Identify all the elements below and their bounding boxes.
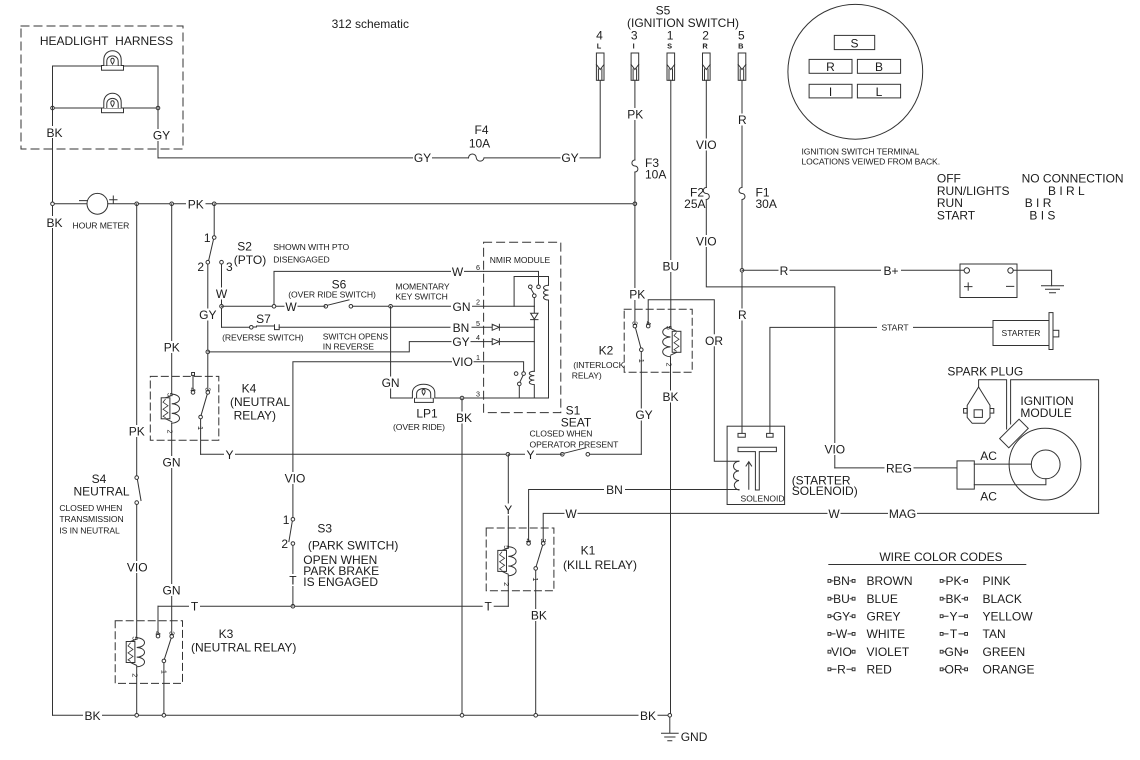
hour meter M1 — [73, 193, 130, 230]
svg-text:VIO: VIO — [696, 138, 717, 152]
label W on S2 pin3 drop — [215, 287, 228, 301]
svg-text:TRANSMISSION: TRANSMISSION — [59, 514, 123, 524]
switch S6 (over ride) — [324, 300, 353, 308]
switch S3 park — [289, 518, 295, 607]
svg-text:STARTER: STARTER — [1002, 328, 1041, 338]
node R to battery junction — [740, 269, 744, 273]
svg-text:1: 1 — [283, 513, 290, 527]
svg-text:IN REVERSE: IN REVERSE — [323, 342, 374, 352]
svg-text:2: 2 — [166, 430, 175, 434]
label VIO on S3 riser — [285, 472, 307, 486]
svg-text:GY: GY — [635, 408, 652, 422]
svg-text:K2: K2 — [599, 344, 614, 358]
svg-text:VIO: VIO — [452, 355, 473, 369]
svg-text:PK: PK — [188, 197, 204, 211]
label VIO at NMIR pin1 — [452, 355, 474, 369]
svg-text:BN: BN — [453, 321, 470, 335]
node PK-BK junction — [51, 202, 55, 206]
svg-text:4: 4 — [524, 539, 533, 543]
wire lamp1 row — [53, 65, 159, 67]
label PK bus — [186, 197, 206, 211]
svg-text:(IGNITION SWITCH): (IGNITION SWITCH) — [627, 16, 739, 30]
wire W row NMIR pin6 — [274, 271, 484, 306]
svg-text:BU: BU — [833, 592, 850, 606]
S5 pin 3 connector — [631, 29, 639, 81]
node Y to K1 coil — [506, 453, 510, 457]
wire GY row to NMIR pin4 — [208, 342, 484, 352]
wire Y row from K4 to seat switch — [201, 453, 642, 455]
wire K4 coil GN drop to K3 pin3 — [171, 423, 173, 634]
svg-text:BLACK: BLACK — [983, 592, 1022, 606]
node PK-K4coil junction — [170, 202, 174, 206]
label K1 (KILL RELAY) — [563, 544, 637, 573]
NMIR internal relay 1 contacts — [529, 285, 541, 298]
svg-text:VIO: VIO — [696, 235, 717, 249]
wire K1 pin1 BK drop — [535, 570, 537, 715]
label START — [877, 322, 913, 332]
svg-text:GY: GY — [452, 335, 469, 349]
svg-text:OPERATOR PRESENT: OPERATOR PRESENT — [530, 439, 620, 449]
label R lower — [737, 308, 748, 322]
svg-text:SOLENOID): SOLENOID) — [792, 484, 858, 498]
label PK on pin3 drop — [626, 108, 646, 122]
note closed when transmission is in neutral — [59, 503, 123, 535]
svg-text:S2: S2 — [237, 240, 252, 254]
svg-text:SPARK PLUG: SPARK PLUG — [947, 365, 1023, 379]
svg-text:2: 2 — [702, 29, 709, 43]
S5 pin 2 connector — [702, 29, 710, 81]
module connector block — [957, 461, 974, 489]
svg-text:IGNITION SWITCH TERMINAL: IGNITION SWITCH TERMINAL — [802, 147, 920, 157]
label PK on S4 feed — [127, 425, 147, 439]
wire S5 pin2 VIO drop — [706, 80, 835, 468]
label AC bottom — [980, 490, 997, 504]
svg-text:GND: GND — [681, 730, 708, 744]
svg-text:RED: RED — [867, 663, 893, 677]
S2 pin labels — [197, 231, 233, 274]
node BK-K1 — [534, 714, 538, 718]
code BU BLUE — [828, 592, 898, 606]
wire REG — [835, 467, 957, 469]
svg-text:Y: Y — [225, 448, 233, 462]
svg-text:2: 2 — [664, 363, 673, 367]
label GN at NMIR pin2 — [451, 300, 472, 314]
label W at NMIR pin6 — [451, 265, 464, 279]
relay K4 switch — [191, 391, 209, 419]
ground battery — [1042, 286, 1064, 293]
svg-text:10A: 10A — [645, 168, 666, 182]
wire Y drop to K1 coil — [507, 454, 509, 546]
code BK BLACK — [940, 592, 1022, 606]
svg-text:PK: PK — [164, 341, 180, 355]
label GY at NMIR pin4 — [452, 335, 471, 349]
code T TAN — [940, 627, 1005, 641]
S5 pin 4 connector — [596, 29, 604, 81]
svg-text:AC: AC — [980, 490, 997, 504]
K1 coil pin labels — [502, 545, 511, 586]
label S7 — [256, 312, 271, 326]
svg-text:BROWN: BROWN — [867, 574, 913, 588]
svg-text:F4: F4 — [474, 123, 488, 137]
node BK-NMIR — [460, 714, 464, 718]
svg-text:Y: Y — [949, 610, 957, 624]
node W-GN junction to LP1 riser — [389, 305, 393, 309]
label AC top — [980, 449, 997, 463]
relay K2 coil — [663, 327, 681, 715]
node BK-K3pin1 — [162, 714, 166, 718]
svg-text:LOCATIONS VEIWED FROM BACK.: LOCATIONS VEIWED FROM BACK. — [802, 157, 940, 167]
svg-text:PK: PK — [629, 288, 645, 302]
code OR ORANGE — [940, 663, 1034, 677]
label W left — [565, 507, 578, 521]
svg-text:NMIR MODULE: NMIR MODULE — [490, 255, 551, 265]
note momentary key switch — [395, 282, 450, 302]
relay K2 switch — [633, 324, 650, 351]
label BK harness — [46, 126, 63, 140]
K4 switch pin4 stub — [192, 373, 195, 391]
label LP1 — [393, 407, 445, 433]
svg-text:R: R — [738, 113, 747, 127]
wire GN riser to LP1 — [390, 306, 392, 398]
svg-text:10A: 10A — [469, 137, 490, 151]
svg-text:3: 3 — [226, 260, 233, 274]
K4 coil pin labels — [166, 393, 175, 434]
label GY on S2 pin2 drop — [198, 308, 217, 322]
NMIR internal right bus — [548, 300, 550, 398]
svg-text:(REVERSE SWITCH): (REVERSE SWITCH) — [222, 333, 304, 343]
NMIR module dashed box — [484, 242, 561, 412]
label GY on K2 riser — [635, 408, 654, 422]
svg-text:SOLENOID: SOLENOID — [741, 494, 785, 504]
svg-text:I: I — [829, 85, 832, 99]
svg-text:GREEN: GREEN — [983, 645, 1026, 659]
relay K3 coil — [126, 638, 144, 716]
wire BN row S7 to NMIR pin5 — [279, 326, 483, 328]
label VIO right riser — [824, 443, 845, 457]
svg-text:L: L — [597, 42, 602, 51]
svg-text:RELAY): RELAY) — [572, 370, 602, 380]
node lamp2 left — [51, 106, 55, 110]
caption terminal locations — [802, 147, 940, 167]
svg-text:GN: GN — [945, 645, 963, 659]
label S6 — [288, 278, 376, 300]
svg-text:LP1: LP1 — [416, 407, 438, 421]
svg-text:(PARK SWITCH): (PARK SWITCH) — [308, 539, 398, 553]
svg-text:WIRE COLOR CODES: WIRE COLOR CODES — [879, 550, 1002, 564]
wire AC bottom lead — [974, 479, 1046, 485]
lamp LP1 (over ride) — [391, 384, 484, 402]
K1 switch pin labels — [524, 539, 548, 582]
terminal I box — [809, 84, 852, 99]
svg-text:5: 5 — [166, 393, 175, 397]
svg-text:AC: AC — [980, 449, 997, 463]
svg-text:PK: PK — [129, 425, 145, 439]
label (STARTER SOLENOID) — [792, 474, 858, 499]
svg-text:T: T — [191, 600, 199, 614]
wire BN from K1 pin4 to solenoid coil bottom — [529, 490, 739, 542]
svg-text:(OVER RIDE SWITCH): (OVER RIDE SWITCH) — [288, 290, 376, 300]
svg-text:3: 3 — [631, 29, 638, 43]
svg-text:4: 4 — [154, 631, 163, 635]
code R RED — [828, 663, 892, 677]
label PK above K2 — [628, 288, 648, 302]
svg-text:3: 3 — [167, 631, 176, 635]
ignition module box — [1011, 380, 1099, 514]
svg-text:W: W — [216, 287, 228, 301]
svg-text:PINK: PINK — [983, 574, 1011, 588]
switch S2 (PTO) — [206, 236, 223, 264]
fuse F1 — [739, 186, 777, 212]
svg-text:BU: BU — [662, 260, 679, 274]
label W right — [828, 507, 841, 521]
svg-text:GN: GN — [453, 300, 471, 314]
svg-text:START: START — [881, 322, 908, 332]
module pickup slanted block — [1000, 419, 1029, 448]
svg-text:R: R — [780, 264, 789, 278]
svg-text:BK: BK — [456, 411, 472, 425]
fuse F3 — [632, 156, 666, 182]
svg-text:R: R — [738, 308, 747, 322]
node W pin6 junction — [272, 305, 276, 309]
NMIR internal pin3 row — [484, 397, 549, 399]
svg-text:S: S — [850, 37, 858, 51]
svg-text:4: 4 — [189, 388, 198, 392]
starter motor — [993, 313, 1059, 350]
relay K1 coil — [498, 547, 516, 607]
NMIR pin numbers — [476, 263, 480, 399]
K3 coil pin labels — [131, 636, 140, 677]
label T on S3 drop — [287, 574, 298, 588]
svg-text:L: L — [876, 85, 883, 99]
svg-text:SHOWN WITH PTO: SHOWN WITH PTO — [273, 242, 349, 252]
wire AC top lead — [974, 463, 1031, 465]
svg-text:W: W — [452, 265, 464, 279]
label GY harness — [152, 129, 170, 143]
svg-text:B I R L: B I R L — [1048, 184, 1085, 198]
svg-text:W: W — [836, 627, 848, 641]
node PK-S4 junction — [135, 202, 139, 206]
ignition switch position table — [937, 172, 1124, 223]
label BN at NMIR pin5 — [451, 321, 472, 335]
label S4 NEUTRAL — [73, 472, 129, 499]
svg-text:4: 4 — [644, 321, 653, 325]
battery BT1 — [960, 264, 1017, 298]
svg-text:B I S: B I S — [1029, 208, 1055, 222]
NMIR internal coil 1 — [544, 285, 549, 300]
svg-text:5: 5 — [664, 326, 673, 330]
svg-text:S: S — [667, 42, 672, 51]
wire GY to F4 to S5 pin4 — [158, 80, 600, 158]
svg-text:BK: BK — [46, 126, 62, 140]
svg-text:4: 4 — [596, 29, 603, 43]
flywheel inner circle — [1031, 450, 1060, 479]
svg-text:GY: GY — [561, 151, 578, 165]
svg-text:MODULE: MODULE — [1020, 406, 1071, 420]
svg-text:IS IN NEUTRAL: IS IN NEUTRAL — [59, 525, 120, 535]
svg-text:(KILL RELAY): (KILL RELAY) — [563, 558, 637, 572]
svg-text:BK: BK — [640, 709, 656, 723]
label BN — [604, 483, 625, 497]
NMIR internal diode D3 pin4 — [484, 339, 535, 345]
relay K1 dashed box — [486, 528, 554, 591]
svg-text:1: 1 — [667, 29, 674, 43]
svg-text:PK: PK — [627, 108, 643, 122]
svg-text:NEUTRAL: NEUTRAL — [73, 485, 129, 499]
wire K4 coil feed PK — [171, 204, 173, 394]
svg-text:CLOSED WHEN: CLOSED WHEN — [530, 428, 593, 438]
svg-text:WHITE: WHITE — [867, 627, 906, 641]
svg-text:3: 3 — [539, 539, 548, 543]
spark plug label — [947, 365, 1023, 379]
wire K4 pin1 to Y row — [200, 419, 202, 454]
svg-text:REG: REG — [886, 462, 912, 476]
svg-text:SWITCH OPENS: SWITCH OPENS — [323, 332, 389, 342]
relay K1 switch — [527, 542, 545, 571]
svg-text:BK: BK — [662, 390, 678, 404]
S3 pin labels — [281, 513, 289, 551]
note open when park brake is engaged — [303, 553, 379, 589]
NMIR internal relay 2 contacts — [514, 372, 525, 386]
note reverse switch — [222, 333, 304, 343]
svg-text:GN: GN — [382, 376, 400, 390]
wire spark plug to module top — [979, 380, 1007, 429]
label REG — [885, 462, 914, 476]
headlamp 2 — [102, 93, 124, 113]
label BK bus left — [83, 709, 102, 723]
svg-text:BK: BK — [84, 709, 100, 723]
svg-text:OR: OR — [705, 334, 723, 348]
label GY left — [413, 151, 432, 165]
NMIR internal diode D1 down — [531, 306, 538, 371]
svg-text:S7: S7 — [256, 312, 271, 326]
svg-text:25A: 25A — [684, 197, 705, 211]
label S3 (PARK SWITCH) — [308, 522, 398, 553]
svg-text:W: W — [828, 507, 840, 521]
svg-text:2: 2 — [476, 298, 480, 307]
switch S4 neutral — [135, 204, 141, 638]
svg-text:3: 3 — [203, 388, 212, 392]
svg-text:2: 2 — [502, 582, 511, 586]
svg-text:2: 2 — [131, 673, 140, 677]
svg-text:YELLOW: YELLOW — [983, 610, 1034, 624]
label VIO lower — [696, 235, 717, 249]
label GN on LP1 riser — [380, 376, 401, 390]
label GN upper on K4 drop — [161, 456, 182, 470]
svg-text:HEADLIGHT HARNESS: HEADLIGHT HARNESS — [40, 34, 173, 48]
svg-text:BN: BN — [606, 483, 623, 497]
label R on battery feed — [779, 264, 790, 278]
code VIO VIOLET — [828, 645, 910, 659]
relay K2 dashed box — [624, 309, 692, 372]
code GN GREEN — [940, 645, 1025, 659]
starter solenoid box — [727, 426, 785, 504]
relay K4 dashed box — [150, 376, 219, 440]
NMIR internal pin6 wire — [484, 271, 539, 284]
svg-text:5: 5 — [131, 636, 140, 640]
svg-text:I: I — [633, 42, 635, 51]
svg-text:Y: Y — [526, 448, 534, 462]
svg-text:HOUR METER: HOUR METER — [73, 221, 130, 231]
node BK-S4 — [135, 714, 139, 718]
svg-text:T: T — [950, 627, 958, 641]
relay K4 coil — [161, 394, 179, 423]
label K3 (NEUTRAL RELAY) — [191, 627, 296, 655]
svg-text:BK: BK — [945, 592, 961, 606]
NMIR internal wire contact2 to pin3 row — [518, 386, 520, 398]
wire BK drop from pin3 row — [461, 398, 463, 715]
NMIR internal pin1 wire — [484, 362, 524, 372]
K3 switch pin labels — [154, 631, 177, 674]
label Y on row — [224, 448, 235, 462]
label BK on K1 drop — [529, 609, 548, 623]
label R upper — [737, 113, 748, 127]
svg-text:(INTERLOCK: (INTERLOCK — [573, 360, 624, 370]
code BN BROWN — [828, 574, 913, 588]
node W junction S2 — [220, 305, 224, 309]
fuse F2 — [684, 186, 709, 212]
svg-text:BLUE: BLUE — [867, 592, 898, 606]
title 312 schematic — [332, 17, 409, 31]
node PK-S2 junction — [212, 202, 216, 206]
label PK on K4 coil feed — [162, 341, 182, 355]
svg-text:B: B — [875, 60, 883, 74]
svg-text:KEY SWITCH: KEY SWITCH — [395, 292, 447, 302]
svg-text:ORANGE: ORANGE — [983, 663, 1035, 677]
node T S3 junction — [291, 604, 295, 608]
terminal S box — [834, 35, 874, 50]
ground GND — [662, 717, 708, 744]
label Y near seat switch — [525, 448, 536, 462]
svg-text:2: 2 — [197, 260, 204, 274]
svg-text:GY: GY — [414, 151, 431, 165]
wire BK bottom bus — [53, 714, 670, 716]
svg-text:OR: OR — [945, 663, 963, 677]
wire T row — [158, 605, 508, 607]
svg-text:START: START — [937, 208, 976, 222]
label T left — [189, 600, 200, 614]
terminal L box — [857, 84, 900, 99]
label BK bus right — [639, 709, 658, 723]
svg-text:Y: Y — [504, 503, 512, 517]
svg-text:3: 3 — [476, 390, 480, 399]
headlamp 1 — [102, 51, 124, 71]
svg-text:VIO: VIO — [127, 561, 148, 575]
svg-text:30A: 30A — [756, 197, 777, 211]
terminal R box — [809, 59, 852, 74]
headlight harness dashed box — [21, 26, 183, 149]
wire VIO row NMIR pin1 to S3 — [293, 362, 484, 518]
label GN lower on K4 drop — [161, 584, 182, 598]
K2 coil pin labels — [664, 326, 673, 367]
label W on row — [285, 300, 298, 314]
svg-text:B+: B+ — [883, 264, 898, 278]
wire K3 pin1 to BK bus — [163, 663, 165, 715]
label Y on K1 coil feed — [503, 503, 514, 517]
svg-text:K3: K3 — [219, 627, 234, 641]
svg-text:312 schematic: 312 schematic — [332, 17, 409, 31]
NMIR internal wire contact to pin2 row — [533, 298, 535, 307]
svg-text:MAG: MAG — [889, 507, 916, 521]
label K4 (NEUTRAL RELAY) — [230, 382, 290, 423]
K2 switch pin labels — [630, 321, 653, 363]
wire START from solenoid to starter — [770, 327, 993, 433]
wire OR from K2 pin4 to solenoid coil — [648, 300, 739, 462]
svg-text:5: 5 — [502, 545, 511, 549]
K4 switch pin labels — [189, 388, 213, 431]
svg-text:BK: BK — [531, 609, 547, 623]
svg-text:5: 5 — [738, 29, 745, 43]
label GY right — [561, 151, 580, 165]
